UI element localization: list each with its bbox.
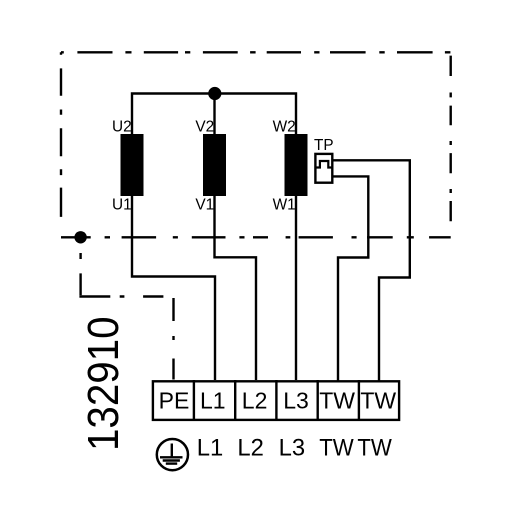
wire TP upper to TW2 xyxy=(332,160,410,381)
earth bar 3 xyxy=(166,462,177,464)
svg-text:W2: W2 xyxy=(273,119,296,136)
wire PE dash-dot segment 3 xyxy=(172,298,174,380)
svg-text:L1: L1 xyxy=(197,435,224,462)
svg-text:L1: L1 xyxy=(200,388,226,414)
wire TP lower to TW1 xyxy=(332,176,368,381)
svg-text:TW: TW xyxy=(360,388,396,414)
svg-text:V1: V1 xyxy=(195,197,214,214)
svg-text:L3: L3 xyxy=(279,435,306,462)
earth bar 1 xyxy=(160,456,183,458)
svg-text:132910: 132910 xyxy=(79,317,128,452)
svg-text:TW: TW xyxy=(319,388,355,414)
svg-text:TW: TW xyxy=(357,435,392,462)
dash-dot enclosure border right xyxy=(450,56,452,222)
svg-text:W1: W1 xyxy=(273,197,296,214)
protective earth symbol circle xyxy=(157,439,188,470)
svg-text:L2: L2 xyxy=(237,435,264,462)
winding W1-W2 xyxy=(285,134,308,196)
TP contact symbol xyxy=(315,161,333,168)
winding U1-U2 xyxy=(121,134,144,196)
thermal protector TP box xyxy=(315,154,332,183)
wire U1 to L1 xyxy=(132,196,215,380)
svg-text:U2: U2 xyxy=(112,119,132,136)
winding V1-V2 xyxy=(203,134,226,196)
earth bar 2 xyxy=(163,459,180,461)
svg-text:PE: PE xyxy=(159,388,190,414)
node dot PE on enclosure xyxy=(74,231,86,243)
wire V2 branch xyxy=(213,94,215,135)
dash-dot enclosure border left xyxy=(60,52,62,217)
dash-dot enclosure border bottom xyxy=(61,236,451,238)
wire PE dash-dot segment 1 xyxy=(79,237,81,295)
svg-text:L2: L2 xyxy=(242,388,268,414)
terminal block outline xyxy=(153,381,399,420)
junction dot star point xyxy=(208,87,221,100)
svg-text:TW: TW xyxy=(319,435,354,462)
svg-text:L3: L3 xyxy=(283,388,309,414)
svg-text:TP: TP xyxy=(314,137,334,154)
wire star bridge U2-V2-W2 xyxy=(132,94,296,135)
dash-dot enclosure border top xyxy=(61,51,450,53)
terminal dividers xyxy=(194,380,359,421)
svg-text:V2: V2 xyxy=(195,119,214,136)
wire V1 to L2 xyxy=(215,196,257,380)
svg-text:U1: U1 xyxy=(112,197,132,214)
wire PE dash-dot segment 2 xyxy=(79,295,163,297)
earth stem xyxy=(171,444,173,458)
wire W1 to L3 xyxy=(295,196,297,380)
